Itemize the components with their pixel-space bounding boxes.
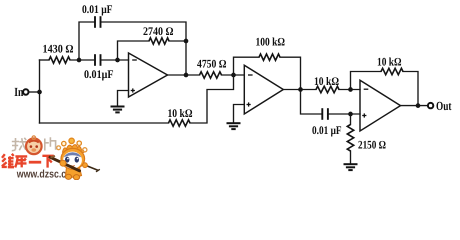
wire op1 + input to ground (118, 91, 129, 107)
node In junction (37, 90, 42, 95)
wire top feedback branch (C1) (79, 22, 94, 60)
watermark gray text character zhao (12, 138, 26, 151)
wire 2740 feedback branch (118, 41, 150, 60)
resistor R1 1430 ohm (49, 57, 70, 63)
terminal In (23, 89, 28, 94)
svg-text:100 kΩ: 100 kΩ (256, 36, 286, 49)
watermark mascot right arm stick (83, 163, 100, 172)
wire bottom rail through R10k (40, 122, 169, 124)
wire 10k feedback op3 (351, 72, 382, 90)
svg-text:4750 Ω: 4750 Ω (197, 58, 227, 71)
wire input vertical bus (39, 60, 41, 123)
op-amp U2 (244, 65, 283, 114)
svg-text:10 kΩ: 10 kΩ (168, 107, 193, 120)
svg-text:2740 Ω: 2740 Ω (143, 25, 174, 38)
svg-text:1430 Ω: 1430 Ω (43, 42, 74, 55)
capacitor C3 0.01uF to op3 + (321, 108, 323, 120)
ground op2 (227, 122, 241, 124)
resistor R8 2150 ohm vertical (347, 125, 353, 152)
capacitor C2 0.01uF input (94, 54, 96, 66)
op-amp U1 (129, 53, 168, 97)
wire op2 + input to ground (234, 105, 245, 123)
resistor R4 10k bottom rail (169, 120, 191, 126)
node op3 output (416, 103, 421, 108)
wire 100k feedback branch (234, 57, 260, 75)
watermark big mascot crown (57, 138, 87, 154)
watermark gray character pian (45, 137, 56, 150)
resistor R6 10k interstage (316, 86, 339, 92)
node 2740/vertical join (184, 39, 189, 44)
resistor R5 100k feedback (259, 54, 280, 60)
node op3 noninverting (348, 112, 353, 117)
ground R8 (344, 163, 358, 165)
svg-text:10 kΩ: 10 kΩ (314, 75, 339, 88)
svg-text:0.01μF: 0.01μF (84, 68, 114, 81)
ground op1 (111, 106, 125, 108)
wire op3 output to Out (401, 105, 428, 107)
node op1 output (184, 73, 189, 78)
watermark red text yi (29, 161, 41, 164)
svg-text:2150 Ω: 2150 Ω (358, 138, 386, 151)
resistor R7 10k feedback op3 (381, 68, 403, 74)
svg-text:0.01 μF: 0.01 μF (82, 3, 113, 16)
node op2 output (298, 87, 303, 92)
svg-text:10 kΩ: 10 kΩ (377, 56, 402, 69)
wire op1 output line (168, 74, 200, 76)
svg-text:0.01 μF: 0.01 μF (312, 124, 342, 137)
node after R1 (77, 58, 82, 63)
watermark red text wei (2, 154, 14, 167)
wire op2 output line (283, 89, 316, 91)
node op1 inverting (115, 58, 120, 63)
wire In lead (28, 91, 39, 93)
wire cap branch to op3 + (301, 90, 322, 115)
node op3 inverting (348, 87, 353, 92)
watermark big mascot body and legs (65, 168, 81, 180)
svg-text:In: In (14, 85, 23, 99)
wire input line to op1 inverting input (40, 59, 50, 61)
op-amp U3 (360, 80, 401, 131)
resistor R3 4750 ohm (200, 72, 222, 78)
wire 2150 to ground stem (350, 114, 352, 125)
watermark small mascot head (26, 136, 42, 154)
node op2 inverting (231, 73, 236, 78)
svg-text:Out: Out (436, 99, 452, 113)
watermark red text ku (15, 156, 27, 167)
watermark mascot left arm stick (50, 156, 80, 171)
resistor R2 2740 ohm feedback (149, 38, 169, 44)
capacitor C1 0.01uF top feedback (94, 16, 96, 28)
watermark red text xia (42, 156, 53, 168)
terminal Out (428, 103, 433, 108)
watermark big mascot head (61, 148, 85, 169)
